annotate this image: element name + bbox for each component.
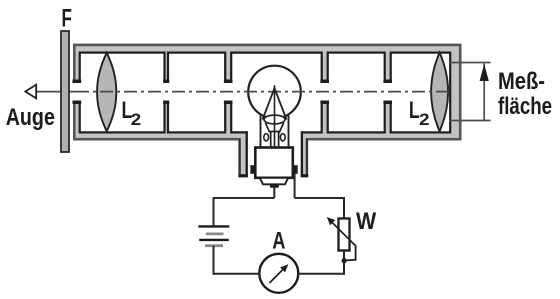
ammeter body [259, 254, 298, 293]
bulb base ellipse [264, 115, 285, 124]
chamber box 4 [328, 53, 385, 133]
junction dot [342, 258, 347, 263]
svg-text:2: 2 [419, 110, 429, 129]
lamp pocket gray walls [238, 135, 308, 176]
lens L2 right [431, 53, 448, 132]
socket contact nub left [250, 165, 255, 174]
chamber box 5 [391, 53, 451, 133]
wire: left vertical to battery [213, 197, 215, 226]
chamber box 1 [80, 53, 165, 133]
rheostat W body [339, 219, 350, 251]
wire: bottom left horizontal [213, 273, 260, 275]
socket bottom insulator [260, 178, 288, 185]
wire: down to rheostat top [343, 197, 345, 219]
battery plate 1 (long) [198, 225, 229, 227]
wire: nub to top-right [294, 174, 296, 199]
filament lead converge lines [265, 123, 269, 133]
rheostat wiper return wire [346, 243, 356, 261]
diaphragm aperture P1 [163, 80, 169, 105]
measuring field dimension: upper line [449, 62, 491, 64]
battery plate 4 (short) [205, 244, 223, 247]
wire: bottom right horizontal [298, 273, 345, 275]
svg-text:fläche: fläche [498, 93, 552, 120]
lamp bulb glass [248, 66, 301, 119]
optical axis (solid left segment) [36, 91, 76, 93]
stem press [271, 132, 279, 148]
lead bead left [264, 134, 269, 141]
lamp pocket wall end caps [238, 174, 248, 177]
lamp pocket outer wall lines [238, 138, 240, 176]
eye direction arrow [25, 85, 36, 99]
lamp pocket interior (white opening) [248, 131, 301, 180]
filament cone [263, 88, 287, 119]
svg-text:F: F [62, 4, 72, 32]
rheostat wiper diagonal [332, 222, 353, 243]
battery plate 3 (long) [199, 239, 229, 241]
svg-text:Auge: Auge [6, 103, 55, 130]
chamber box 2 [168, 53, 225, 133]
svg-text:Meß-: Meß- [498, 67, 545, 94]
battery plate 2 (short) [206, 232, 224, 235]
wire: top-left horizontal [214, 197, 275, 199]
bulb neck walls [260, 116, 262, 148]
measuring field dimension: lower line [449, 120, 491, 122]
diaphragm aperture P2 [224, 80, 233, 105]
photometer tube body (gray) [74, 45, 460, 139]
wire: battery down [213, 246, 215, 275]
bottom contact [270, 184, 279, 188]
eyepiece aperture (left wall) [73, 80, 82, 105]
wire: right vertical up to rheostat [343, 251, 345, 275]
ammeter needle [270, 268, 285, 283]
filament center wire [274, 85, 276, 146]
socket contact nub right [293, 165, 298, 174]
svg-text:2: 2 [131, 110, 141, 129]
optical axis (dash-dot) [76, 91, 450, 93]
measuring field dimension: vertical line [483, 64, 485, 121]
diaphragm aperture P3 [320, 80, 329, 105]
lamp pocket inner wall lines [246, 131, 248, 176]
measuring field dimension: up arrowhead [480, 64, 489, 81]
chamber box 3 (lamp chamber) [231, 53, 322, 133]
diaphragm aperture P4 [383, 80, 392, 105]
wire: top-right horizontal [295, 197, 344, 199]
svg-text:A: A [272, 227, 285, 254]
rheostat wiper arrowhead [327, 217, 335, 225]
filter plate F [61, 31, 69, 152]
lead bead right [280, 134, 285, 141]
wire: lamp bottom contact down [273, 187, 275, 198]
lens L2 left [97, 53, 116, 131]
ammeter needle head [280, 264, 288, 272]
svg-text:W: W [356, 207, 377, 234]
lamp socket [255, 148, 292, 178]
